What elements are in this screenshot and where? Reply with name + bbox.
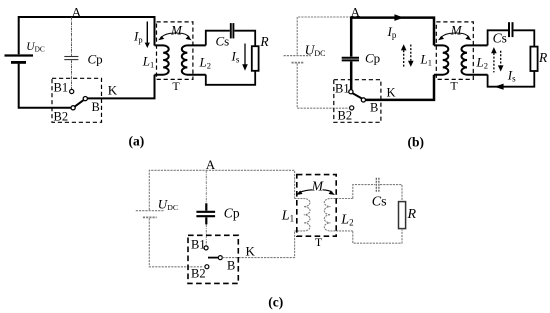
switch lever (c) (208, 257, 218, 259)
secondary loop left+top wire (c) (353, 185, 375, 199)
grey wire from B to transformer (c) (222, 231, 294, 258)
svg-text:B: B (92, 100, 100, 114)
wire top/left of primary loop (a) (19, 17, 155, 54)
battery U_DC (b) long plate (284, 55, 311, 57)
inductor L1 (b) (434, 45, 448, 74)
battery U_DC (b) short plate (292, 62, 304, 64)
svg-text:(c): (c) (268, 295, 283, 310)
grey wire top of primary loop (c) (149, 170, 294, 210)
switch contact B1 circle (a) (70, 89, 74, 93)
svg-text:B2: B2 (338, 109, 353, 123)
svg-text:M: M (170, 23, 183, 38)
switch lever K (a) (75, 100, 84, 106)
svg-text:B2: B2 (54, 110, 69, 124)
switch pivot B circle (b) (361, 98, 365, 102)
capacitor Cp (c) stub + plates (205, 203, 207, 210)
mutual coupling M arrow right (b) (456, 33, 469, 37)
resistor R (c) (399, 202, 406, 229)
transformer T dashed box (c) (297, 175, 336, 237)
switch dashed box (b) (334, 80, 381, 123)
battery U_DC (c) short plate (143, 216, 157, 218)
svg-text:Cs: Cs (493, 30, 507, 45)
switch contact B2 circle (c) (205, 265, 209, 269)
secondary top-right wire (c) (380, 185, 402, 202)
wire Cp to B1 (a) (71, 60, 73, 89)
switch contact B1 circle (c) (204, 246, 208, 250)
svg-text:Cp: Cp (365, 51, 380, 66)
svg-text:R: R (259, 34, 269, 49)
capacitor Cp (b) plates (342, 57, 359, 59)
secondary bottom wire (c) (353, 229, 402, 244)
current Ip arrow (a) (146, 22, 148, 44)
secondary loop left+top wire (b) (488, 30, 508, 45)
wire Cp to B1 (b) (350, 62, 353, 90)
mutual coupling M arrow left (a) (161, 33, 176, 37)
secondary bottom wire (a) (206, 71, 255, 85)
svg-text:B1: B1 (335, 82, 350, 96)
switch pivot B circle (a) (83, 97, 87, 101)
svg-text:Cs: Cs (372, 194, 387, 209)
inductor L2 (b) (462, 45, 488, 74)
svg-text:(a): (a) (129, 134, 145, 149)
svg-text:T: T (172, 79, 180, 93)
transformer T dashed box (b) (436, 22, 473, 80)
svg-text:B: B (227, 259, 235, 273)
inductor L1 (a) (155, 45, 169, 74)
current Is arrowhead (b) (494, 84, 503, 90)
battery U_DC (a) long plate (5, 54, 34, 56)
svg-text:A: A (351, 4, 361, 19)
capacitor Cs (a) plates (230, 23, 232, 38)
svg-text:A: A (206, 157, 216, 172)
svg-text:R: R (538, 50, 548, 65)
svg-text:Cp: Cp (88, 52, 103, 67)
wire top black A to transformer (b) (352, 18, 435, 46)
svg-text:Cp: Cp (224, 206, 240, 221)
wire K from B to transformer (a) (88, 75, 155, 99)
mutual coupling M arrow left (b) (441, 33, 456, 37)
mutual coupling M arrow right (a) (177, 33, 190, 37)
svg-text:T: T (450, 79, 458, 93)
grey wire Cp to B1 (c) (205, 224, 207, 246)
secondary top-right wire (a) (234, 31, 255, 47)
capacitor Cs (c) plates (375, 178, 377, 193)
mutual coupling M arrow left (c) (300, 190, 313, 193)
svg-text:B2: B2 (191, 267, 206, 281)
battery U_DC (c) long plate (136, 210, 164, 212)
oscillation arrow down (b primary) (410, 45, 412, 61)
switch contact B1 circle (b) (349, 90, 353, 94)
svg-text:B1: B1 (54, 81, 69, 95)
wire A branch (b) (350, 17, 353, 57)
svg-text:B: B (370, 101, 378, 115)
resistor R (a) (252, 46, 259, 71)
svg-text:M: M (450, 23, 463, 38)
oscillation arrow up (b primary) (403, 50, 405, 67)
svg-text:Cs: Cs (216, 34, 230, 49)
svg-text:M: M (311, 178, 324, 193)
inductor L1 (c) grey (295, 199, 310, 231)
secondary top-right wire (b) (514, 30, 535, 46)
secondary bottom wire (b) (488, 71, 535, 87)
resistor R (b) (530, 47, 537, 71)
oscillation arrow down (b secondary) (500, 51, 502, 66)
capacitor Cp (a) plates (64, 56, 78, 58)
switch dashed box (a) (52, 78, 102, 122)
current Is arrow (a) (244, 44, 246, 65)
svg-text:K: K (108, 83, 118, 98)
inductor L2 (c) grey (324, 199, 353, 231)
svg-text:T: T (315, 235, 323, 249)
grey wire battery bottom to B2 (c) (149, 218, 203, 266)
svg-text:R: R (407, 207, 417, 222)
switch contact B2 circle (a) (71, 106, 75, 110)
svg-text:K: K (387, 86, 396, 100)
svg-text:A: A (72, 5, 82, 20)
capacitor Cs (b) plates (508, 22, 510, 37)
svg-text:(b): (b) (408, 135, 425, 150)
switch lever (b) (353, 93, 362, 98)
battery U_DC (a) short plate (11, 61, 26, 64)
inductor L2 (a) (182, 45, 206, 74)
node A tick (a) (71, 17, 73, 56)
secondary loop left+top wire (a) (206, 31, 230, 46)
grey wire A branch upper (c) (205, 170, 207, 203)
grey wire battery bottom to B2 (b) (297, 64, 349, 109)
mutual coupling M arrow right (c) (323, 190, 333, 193)
wire K from B to transformer (b) (366, 75, 434, 100)
svg-text:B1: B1 (191, 238, 206, 252)
grey wire battery top (b) (297, 17, 351, 55)
current Ip arrowhead (b) (394, 14, 403, 21)
wire battery bottom to B2 (a) (19, 64, 71, 108)
switch contact B2 circle (b) (350, 106, 354, 110)
oscillation arrow up (b secondary) (493, 53, 495, 72)
switch dashed box (c) (188, 235, 238, 283)
switch pivot B circle (c) (218, 256, 222, 260)
svg-text:K: K (246, 244, 256, 259)
transformer T dashed box (a) (157, 22, 193, 80)
